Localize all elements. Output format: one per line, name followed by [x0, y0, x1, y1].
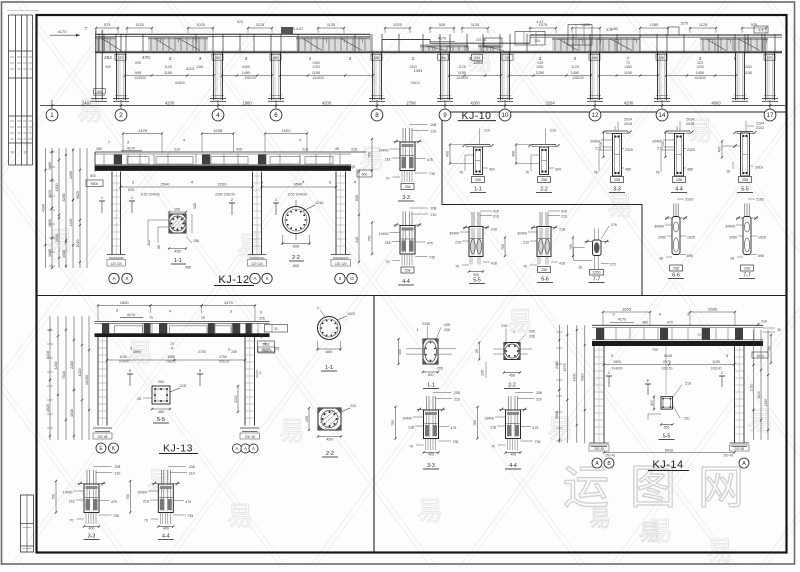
svg-text:10400: 10400	[484, 417, 494, 421]
svg-text:1125: 1125	[699, 23, 707, 27]
svg-text:6: 6	[274, 112, 278, 119]
svg-text:216: 216	[761, 320, 767, 324]
KJ-10 upper detail boxes	[430, 22, 768, 48]
svg-text:2104: 2104	[756, 122, 764, 126]
svg-text:30400: 30400	[654, 225, 664, 229]
svg-text:6-6: 6-6	[541, 277, 549, 283]
svg-text:2: 2	[339, 276, 342, 281]
svg-text:2: 2	[412, 56, 415, 61]
KJ-12 beam	[95, 152, 366, 172]
svg-text:←: ←	[11, 151, 15, 156]
svg-text:9620: 9620	[76, 191, 80, 199]
svg-text:30400: 30400	[725, 225, 735, 229]
svg-text:4200: 4200	[470, 100, 480, 105]
svg-text:12: 12	[592, 112, 599, 119]
svg-text:3: 3	[245, 56, 248, 61]
svg-text:45: 45	[335, 147, 339, 151]
svg-text:948: 948	[537, 61, 543, 65]
svg-text:7-7: 7-7	[593, 277, 601, 283]
svg-text:456: 456	[185, 266, 191, 270]
svg-text:1150: 1150	[712, 360, 720, 364]
svg-text:1: 1	[513, 330, 515, 334]
svg-text:475: 475	[111, 500, 117, 504]
svg-text:258: 258	[614, 178, 620, 182]
title strip grid	[9, 15, 33, 165]
svg-text:200 48: 200 48	[98, 435, 108, 439]
svg-text:258: 258	[475, 178, 481, 182]
column section 6-6 (bottom row)	[517, 210, 574, 273]
svg-text:7-7: 7-7	[743, 273, 751, 279]
svg-text:750: 750	[368, 152, 372, 158]
svg-text:700: 700	[501, 244, 505, 250]
svg-text:2014: 2014	[624, 118, 632, 122]
svg-text:254: 254	[104, 55, 112, 60]
svg-text:950: 950	[697, 333, 703, 337]
svg-text:330: 330	[473, 273, 479, 277]
svg-text:208: 208	[189, 465, 195, 469]
KJ-12 detail 3-3 label	[398, 195, 414, 201]
svg-text:4-4: 4-4	[162, 534, 170, 540]
svg-text:258: 258	[676, 178, 682, 182]
svg-text:1030: 1030	[55, 234, 59, 242]
svg-text:5-5: 5-5	[663, 434, 671, 440]
KJ-14 section 2-2 label	[504, 383, 520, 389]
svg-text:1285: 1285	[650, 23, 658, 27]
svg-text:400: 400	[428, 453, 434, 457]
svg-text:KJ-14: KJ-14	[652, 459, 683, 471]
beam section 2-2	[512, 129, 561, 183]
svg-text:1025: 1025	[758, 236, 766, 240]
KJ-14 left dimension stack	[555, 325, 586, 443]
svg-text:475: 475	[451, 426, 457, 430]
svg-text:1025: 1025	[582, 23, 590, 27]
svg-text:1420: 1420	[48, 190, 52, 198]
svg-text:2685: 2685	[708, 306, 718, 311]
KJ-13 detail 4-4 label	[158, 534, 174, 540]
svg-text:1450: 1450	[624, 65, 632, 69]
svg-text:1025: 1025	[196, 23, 204, 27]
KJ-13 detail 3-3 label	[84, 534, 100, 540]
svg-text:204: 204	[534, 39, 540, 43]
svg-text:1425: 1425	[138, 128, 148, 133]
beam section 7-7 label	[589, 277, 605, 283]
svg-text:208: 208	[115, 465, 121, 469]
KJ-10 title	[458, 110, 496, 122]
KJ-13 title	[159, 443, 198, 455]
svg-text:1750: 1750	[219, 355, 227, 359]
svg-text:210: 210	[174, 148, 180, 152]
svg-text:750: 750	[391, 420, 395, 426]
svg-text:210: 210	[189, 472, 195, 476]
KJ-13 inner dimension line	[106, 342, 246, 363]
KJ-14 title	[648, 459, 689, 471]
svg-text:30400: 30400	[449, 232, 459, 236]
svg-text:208: 208	[431, 123, 437, 127]
svg-text:KJ-13: KJ-13	[163, 443, 193, 455]
svg-text:210: 210	[455, 241, 461, 245]
svg-text:A: A	[252, 446, 255, 451]
KJ-13 top dimension row	[97, 300, 263, 321]
svg-text:256: 256	[673, 267, 679, 271]
svg-text:4800: 4800	[711, 100, 721, 105]
svg-text:64820: 64820	[175, 81, 185, 85]
svg-text:425: 425	[697, 61, 703, 65]
svg-text:210: 210	[523, 241, 529, 245]
KJ-13 left dimension stack	[46, 316, 90, 440]
svg-text:76: 76	[455, 265, 459, 269]
svg-text:104830: 104830	[694, 76, 706, 80]
svg-text:470: 470	[142, 55, 150, 60]
svg-text:202 44: 202 44	[476, 38, 486, 42]
svg-text:205: 205	[529, 330, 535, 334]
svg-text:400: 400	[163, 527, 169, 531]
svg-text:KJ-10: KJ-10	[462, 110, 492, 122]
KJ-12 title	[214, 274, 254, 286]
svg-text:3-3: 3-3	[88, 534, 96, 540]
svg-text:2014: 2014	[686, 118, 694, 122]
svg-text:2-2: 2-2	[326, 451, 334, 457]
svg-text:1450: 1450	[312, 61, 320, 65]
svg-text:700: 700	[569, 244, 573, 250]
svg-text:120 120: 120 120	[251, 262, 263, 266]
svg-text:8: 8	[734, 56, 737, 61]
svg-text:1520: 1520	[613, 360, 621, 364]
svg-text:3: 3	[469, 56, 472, 61]
svg-text:4-4: 4-4	[675, 187, 683, 193]
svg-text:2: 2	[574, 56, 577, 61]
KJ-13 beam	[95, 316, 288, 353]
KJ-13 detail 4-4 section	[126, 465, 195, 531]
svg-text:450: 450	[326, 437, 333, 442]
svg-text:400: 400	[510, 453, 516, 457]
svg-text:1030: 1030	[48, 219, 52, 227]
KJ-12 section cut marks	[99, 179, 356, 215]
svg-text:1381: 1381	[536, 65, 544, 69]
svg-text:750: 750	[52, 494, 56, 500]
KJ-10 grid ticks	[51, 100, 771, 110]
svg-text:1500: 1500	[120, 300, 130, 305]
KJ-14 bottom dimension	[603, 449, 736, 458]
svg-text:2-2: 2-2	[540, 187, 548, 193]
KJ-14 top dimension row	[602, 306, 767, 326]
KJ-12 right dimension line	[349, 165, 372, 263]
svg-text:735: 735	[453, 440, 459, 444]
svg-text:易: 易	[589, 506, 611, 531]
column section 7-7 right label	[739, 273, 755, 279]
svg-text:1260: 1260	[610, 27, 618, 31]
svg-text:1393: 1393	[473, 60, 484, 65]
svg-text:28: 28	[730, 257, 734, 261]
svg-text:4.47: 4.47	[537, 20, 544, 24]
KJ-14 square section 1-1	[397, 322, 456, 377]
svg-text:7810: 7810	[62, 371, 66, 379]
svg-text:210: 210	[350, 404, 356, 408]
svg-text:3-3: 3-3	[613, 187, 621, 193]
svg-text:1080: 1080	[62, 250, 66, 258]
svg-text:210: 210	[536, 398, 542, 402]
svg-text:475: 475	[533, 426, 539, 430]
svg-text:4200: 4200	[322, 100, 332, 105]
beam section 1-1	[446, 129, 495, 183]
beam section 4-4	[652, 118, 695, 183]
svg-text:800: 800	[293, 264, 299, 268]
svg-text:304: 304	[555, 168, 561, 172]
svg-text:1-1: 1-1	[174, 258, 182, 264]
svg-text:200 48: 200 48	[245, 435, 255, 439]
svg-text:104830: 104830	[312, 76, 324, 80]
svg-text:4200: 4200	[41, 204, 45, 212]
svg-text:76: 76	[459, 171, 463, 175]
svg-text:10150: 10150	[85, 375, 89, 385]
svg-text:750: 750	[473, 420, 477, 426]
svg-text:2050: 2050	[658, 236, 666, 240]
KJ-10 beam cell dividers	[99, 34, 775, 52]
svg-text:945: 945	[105, 65, 111, 69]
svg-text:14: 14	[659, 112, 666, 119]
svg-text:2798: 2798	[406, 100, 416, 105]
svg-text:475: 475	[758, 29, 764, 33]
KJ-14 detail 5-5 label	[659, 434, 675, 440]
svg-text:2020: 2020	[234, 395, 238, 403]
svg-text:750: 750	[126, 494, 130, 500]
svg-text:16: 16	[726, 170, 730, 174]
svg-text:105: 105	[174, 208, 180, 212]
svg-text:735: 735	[535, 440, 541, 444]
svg-text:1150: 1150	[744, 71, 752, 75]
svg-text:KJ-12: KJ-12	[218, 274, 249, 286]
svg-text:4170: 4170	[58, 29, 68, 34]
svg-text:435: 435	[305, 416, 309, 422]
svg-text:1-1: 1-1	[474, 187, 482, 193]
svg-text:1610: 1610	[756, 354, 764, 358]
KJ-14 detail 3-3 section	[391, 391, 460, 457]
svg-text:1150: 1150	[458, 71, 466, 75]
svg-text:76810: 76810	[410, 81, 420, 85]
svg-text:2700: 2700	[198, 350, 206, 354]
section panel step border	[442, 112, 642, 296]
svg-text:1980: 1980	[242, 100, 252, 105]
svg-text:700: 700	[652, 348, 658, 352]
svg-text:116: 116	[147, 240, 151, 246]
svg-text:10: 10	[502, 112, 509, 119]
KJ-14 right dimension stack	[749, 330, 772, 440]
KJ-13 section 2-2 label	[322, 451, 338, 457]
svg-text:573: 573	[104, 23, 110, 27]
svg-text:25: 25	[137, 397, 141, 401]
svg-text:1520: 1520	[282, 128, 292, 133]
svg-text:272: 272	[610, 262, 616, 266]
svg-text:X: X	[125, 276, 128, 281]
svg-text:1150: 1150	[312, 71, 320, 75]
svg-text:1-1: 1-1	[325, 365, 333, 371]
svg-text:258: 258	[541, 178, 547, 182]
svg-text:4200: 4200	[573, 374, 577, 382]
svg-text:78: 78	[594, 171, 598, 175]
svg-text:1675: 1675	[563, 364, 567, 372]
svg-text:4170: 4170	[618, 318, 626, 322]
svg-text:104830: 104830	[611, 366, 622, 370]
svg-text:2102: 2102	[756, 126, 764, 130]
svg-text:70: 70	[491, 445, 495, 449]
svg-text:2-2: 2-2	[292, 255, 300, 261]
svg-text:4170: 4170	[127, 313, 135, 317]
svg-text:9480: 9480	[242, 65, 250, 69]
svg-text:T: T	[85, 26, 88, 31]
svg-text:156: 156	[193, 239, 199, 243]
svg-text:2540: 2540	[161, 182, 171, 187]
title strip lower box	[21, 495, 34, 552]
svg-text:216: 216	[302, 148, 308, 152]
svg-text:1150: 1150	[119, 355, 127, 359]
svg-text:7810: 7810	[581, 374, 585, 382]
svg-text:2160: 2160	[555, 361, 559, 369]
svg-text:d: d	[329, 180, 331, 185]
svg-text:网: 网	[698, 461, 744, 513]
svg-text:210: 210	[431, 130, 437, 134]
beam section 5-5	[718, 121, 765, 183]
svg-text:450: 450	[174, 249, 181, 254]
svg-text:70: 70	[70, 519, 74, 523]
svg-text:1-1: 1-1	[427, 383, 435, 389]
svg-text:120 120: 120 120	[110, 262, 122, 266]
svg-text:易: 易	[147, 466, 173, 496]
svg-text:1450: 1450	[744, 65, 752, 69]
beam section 5-5 label	[737, 187, 753, 193]
svg-text:235: 235	[481, 370, 485, 376]
KJ-13 square section 2-2	[305, 404, 356, 442]
column section 6-6 right label	[668, 273, 684, 279]
KJ-10 boxed callouts under beam	[115, 54, 775, 60]
svg-text:70: 70	[386, 177, 390, 181]
svg-text:240: 240	[355, 237, 359, 243]
svg-text:450: 450	[642, 321, 648, 325]
svg-text:255: 255	[664, 426, 670, 430]
svg-text:9600: 9600	[91, 182, 99, 186]
svg-text:600: 600	[355, 195, 359, 201]
svg-text:2-2: 2-2	[508, 383, 516, 389]
svg-text:210: 210	[484, 129, 490, 133]
svg-text:2103: 2103	[685, 198, 693, 202]
svg-text:2103: 2103	[756, 198, 764, 202]
svg-text:29: 29	[201, 316, 205, 320]
svg-text:1381: 1381	[196, 65, 204, 69]
svg-text:218: 218	[501, 324, 507, 328]
svg-text:418: 418	[491, 262, 497, 266]
svg-text:485: 485	[687, 168, 693, 172]
svg-text:16: 16	[578, 266, 582, 270]
svg-text:17: 17	[767, 112, 774, 119]
svg-text:1010: 1010	[76, 240, 80, 248]
svg-text:258: 258	[405, 185, 411, 189]
svg-text:415: 415	[493, 210, 499, 214]
KJ-12 detail 3-3 beam section	[368, 123, 437, 190]
KJ-12 grid bubbles	[109, 273, 357, 283]
svg-text:3: 3	[199, 56, 202, 61]
svg-text:4170: 4170	[438, 37, 446, 41]
KJ-10 columns	[91, 30, 778, 101]
svg-text:798220: 798220	[166, 359, 177, 363]
svg-text:200 48: 200 48	[723, 454, 733, 458]
svg-text:2320: 2320	[687, 148, 695, 152]
svg-text:695: 695	[687, 254, 693, 258]
svg-text:2: 2	[119, 112, 123, 119]
KJ-12 columns	[107, 172, 351, 267]
svg-text:3: 3	[260, 335, 262, 339]
KJ-14 detail 4-4 section	[473, 391, 542, 457]
svg-text:78: 78	[656, 171, 660, 175]
svg-text:4-4: 4-4	[509, 463, 517, 469]
svg-text:1125: 1125	[256, 23, 264, 27]
svg-text:1023: 1023	[347, 312, 355, 316]
svg-text:4200: 4200	[165, 100, 175, 105]
svg-text:1253: 1253	[696, 65, 704, 69]
svg-text:208: 208	[431, 207, 437, 211]
KJ-12 detail 1-1 square column section	[147, 203, 199, 254]
column section 6-6 (right)	[654, 198, 695, 272]
KJ-12 detail 2-2 circular column section	[281, 200, 323, 249]
svg-text:70: 70	[386, 260, 390, 264]
svg-text:485: 485	[625, 168, 631, 172]
svg-text:218: 218	[69, 500, 75, 504]
KJ-13 section cut marks	[127, 368, 203, 386]
column section 5-5 label	[469, 278, 485, 284]
svg-text:210: 210	[115, 472, 121, 476]
svg-text:A: A	[236, 446, 239, 451]
KJ-14 columns	[589, 346, 749, 451]
svg-text:4200: 4200	[55, 184, 59, 192]
svg-text:108150: 108150	[661, 366, 672, 370]
svg-text:735: 735	[113, 514, 119, 518]
svg-text:2160: 2160	[764, 399, 768, 407]
svg-text:4-4: 4-4	[402, 279, 410, 285]
svg-text:470: 470	[667, 321, 673, 325]
panel divider bottom vertical	[373, 296, 375, 553]
svg-text:695: 695	[758, 254, 764, 258]
svg-text:218: 218	[385, 158, 391, 162]
KJ-12 top dimension row	[96, 128, 357, 152]
svg-text:1150 104830: 1150 104830	[140, 193, 160, 197]
svg-text:475: 475	[427, 158, 433, 162]
svg-text:800: 800	[90, 174, 96, 178]
svg-text:475: 475	[427, 242, 433, 246]
svg-text:304: 304	[489, 168, 495, 172]
svg-text:1125: 1125	[164, 65, 172, 69]
svg-text:2487: 2487	[82, 100, 92, 105]
svg-text:易: 易	[279, 416, 305, 446]
svg-text:1620: 1620	[48, 249, 52, 257]
column section 7-7 (right)	[725, 198, 766, 272]
KJ-14 grid bubbles	[592, 458, 749, 468]
KJ-13 section 1-1 label	[321, 365, 337, 371]
svg-text:1450: 1450	[242, 71, 250, 75]
svg-text:d: d	[354, 179, 356, 184]
svg-text:600: 600	[326, 349, 333, 354]
svg-text:104800: 104800	[119, 359, 130, 363]
svg-text:200 48: 200 48	[594, 447, 604, 451]
svg-text:70: 70	[144, 519, 148, 523]
svg-text:1125: 1125	[571, 65, 579, 69]
svg-text:1: 1	[417, 328, 419, 332]
svg-text:218: 218	[143, 500, 149, 504]
svg-text:205: 205	[437, 367, 443, 371]
KJ-12 detail 4-4 column section	[368, 207, 437, 274]
svg-text:695: 695	[135, 61, 141, 65]
svg-text:575: 575	[751, 23, 757, 27]
KJ-10 beam band	[95, 27, 782, 53]
KJ-14 beam	[592, 325, 781, 346]
svg-text:2018: 2018	[624, 122, 632, 126]
svg-text:418: 418	[559, 262, 565, 266]
